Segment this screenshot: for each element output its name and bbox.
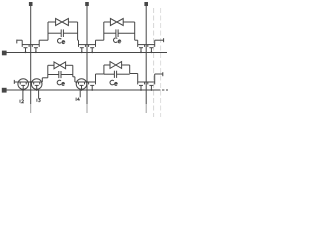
faint continuation line A (x=153.6)	[153, 8, 155, 117]
scan line 2 dashed continuation	[158, 89, 168, 91]
wire row2 right end	[155, 73, 163, 75]
wire Q1b to loop1	[39, 39, 48, 41]
transistor T31 (row2 pair3 left)	[138, 74, 147, 91]
element loop 2 row1	[104, 22, 135, 40]
terminal pad scan line 2	[2, 88, 7, 93]
label 14	[76, 98, 80, 101]
wire row1 right end	[155, 39, 164, 41]
transistor T11 circle envelope	[18, 79, 29, 90]
scan line 2	[7, 89, 159, 91]
junction dot bus2/row2	[86, 81, 88, 83]
capacitor branch row2 cell2	[104, 71, 130, 78]
element loop 1 row2	[48, 65, 73, 78]
wire row1 left	[17, 39, 22, 41]
wire stub start row 2	[13, 80, 15, 84]
scan line 1	[7, 52, 168, 54]
wire loop1 row2 to T21	[73, 77, 76, 82]
terminal pad D1	[29, 2, 33, 6]
terminal pad scan line 1	[2, 51, 7, 56]
wire Q2b to loop2	[96, 39, 104, 41]
capacitor branch row2 cell1	[48, 71, 73, 78]
transistor T22 (row2 pair2 right)	[87, 74, 96, 91]
transistor T11 (row2 pair1 left)	[18, 82, 31, 91]
wire loop1 to Q2a	[77, 39, 80, 41]
transistor T12 (row2 pair1 right)	[31, 82, 43, 91]
wire stub start row 1	[16, 40, 18, 44]
data line D1	[30, 6, 32, 105]
transistor T21 (row2 pair2 left)	[76, 82, 87, 91]
capacitor branch row1 cell2	[104, 29, 135, 37]
wire T22 to loop2 row2	[96, 73, 104, 75]
junction dot bus1/row2	[30, 81, 32, 83]
label Ce cell2 row1	[114, 38, 121, 43]
terminal pad D3	[144, 2, 148, 6]
faint continuation line B (x=160.6)	[160, 8, 162, 117]
transistor Q1a (row1 pair1 left)	[22, 40, 31, 53]
element loop 1 row1	[48, 22, 78, 40]
transistor Q3a (row1 pair3 left)	[138, 40, 147, 53]
label Ce cell1 row2	[57, 80, 64, 85]
data line D3	[145, 6, 147, 105]
transistor Q2b (row1 pair2 right)	[87, 40, 96, 53]
bowtie element E2	[110, 19, 123, 26]
terminal pad D2	[85, 2, 89, 6]
leader line label 12	[22, 90, 24, 99]
leader line label 13	[38, 90, 40, 99]
wire end tick row1	[163, 38, 165, 42]
transistor Q2a (row1 pair2 left)	[79, 40, 88, 53]
wire loop2 row2 to T31	[130, 73, 138, 75]
bowtie element E4	[110, 62, 122, 69]
wire row2 left	[14, 81, 18, 83]
capacitor branch row1 cell1	[48, 29, 78, 37]
transistor T12 circle envelope	[31, 79, 42, 90]
element loop 2 row2	[104, 65, 130, 74]
label Ce cell2 row2	[110, 80, 117, 85]
wire loop2 to Q3a	[135, 39, 138, 41]
transistor T32 (row2 pair3 right)	[146, 74, 155, 91]
bowtie element E3	[54, 62, 66, 69]
leader line label 14	[79, 90, 81, 97]
bowtie element E1	[56, 19, 69, 26]
label Ce cell1 row1	[58, 39, 65, 44]
transistor Q1b (row1 pair1 right)	[31, 40, 40, 53]
label 12	[20, 100, 24, 103]
wire end tick row2	[162, 72, 164, 76]
transistor T21 circle envelope	[76, 79, 87, 90]
wire T12 to loop1 row2	[42, 78, 48, 82]
data line D2	[86, 6, 88, 105]
label 13	[37, 99, 40, 102]
transistor Q3b (row1 pair3 right)	[146, 40, 155, 53]
